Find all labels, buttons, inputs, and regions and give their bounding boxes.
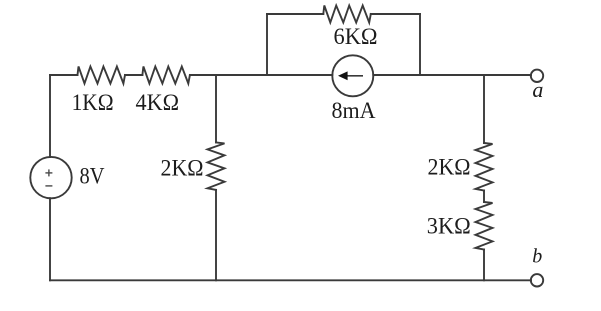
wire: left rail lower (voltage source down to bottom rail) [49, 198, 51, 280]
wire: bypass loop right vertical [419, 14, 421, 75]
wire: right branch upper (node to R5) [483, 75, 485, 143]
svg-text:b: b [532, 246, 542, 268]
wire: top-left horizontal segment from left rail to R1 [50, 74, 78, 76]
current source I1 (8mA) circle [332, 55, 373, 96]
wire: right branch lower (R6 to bottom rail) [483, 250, 485, 281]
svg-text:2KΩ: 2KΩ [428, 155, 471, 180]
resistor R3 (2KΩ middle branch) [208, 142, 225, 190]
wire: middle branch upper (node to R3) [215, 75, 217, 142]
svg-text:6KΩ: 6KΩ [334, 24, 378, 49]
wire: left rail upper (top corner down to voltage source) [49, 75, 51, 157]
svg-text:1KΩ: 1KΩ [72, 90, 114, 115]
wire: bypass loop left vertical [266, 14, 268, 75]
wire: from current source right to terminal a, through bypass tap and right branch node [373, 74, 531, 76]
resistor R2 (4KΩ) [142, 67, 190, 84]
voltage source minus sign [45, 185, 52, 187]
resistor R5 (2KΩ right branch) [476, 143, 493, 191]
svg-text:8mA: 8mA [332, 98, 376, 123]
svg-text:2KΩ: 2KΩ [161, 156, 204, 181]
svg-text:3KΩ: 3KΩ [427, 214, 471, 239]
svg-text:4KΩ: 4KΩ [136, 90, 180, 115]
terminal b circle [531, 274, 543, 286]
resistor R4 (6KΩ bypass) [323, 6, 371, 23]
wire: bypass loop top left segment [267, 13, 323, 15]
current source arrow (pointing left) [338, 71, 363, 80]
terminal a circle [531, 70, 543, 82]
wire: middle branch lower (R3 to bottom rail) [215, 190, 217, 280]
wire: from R2 through node of middle branch and bypass tap to current source left [190, 74, 332, 76]
resistor R6 (3KΩ right branch) [476, 202, 493, 250]
voltage source plus sign [45, 169, 52, 176]
wire: bypass loop top right segment [371, 13, 420, 15]
wire: between R1 and R2 [125, 74, 142, 76]
wire: right branch between R5 and R6 [483, 191, 485, 203]
voltage source V1 (8V) circle [30, 157, 71, 198]
svg-text:8V: 8V [80, 164, 105, 189]
resistor R1 (1KΩ) [78, 67, 126, 84]
wire: bottom rail from left corner to terminal b [50, 279, 531, 281]
svg-text:a: a [532, 77, 543, 102]
